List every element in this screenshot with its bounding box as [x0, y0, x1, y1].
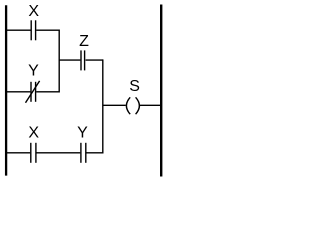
svg-text:S: S — [129, 78, 140, 95]
contact X1 (normally open) — [31, 20, 35, 40]
svg-text:Y: Y — [28, 63, 39, 80]
left power rail — [5, 5, 7, 175]
wire: bottom rung, left rail to contact X2 — [6, 152, 30, 154]
wire: top rung, left rail to contact X1 — [6, 29, 31, 31]
svg-text:X: X — [28, 125, 39, 142]
contact Z (normally open) — [81, 50, 85, 70]
wire: coil S to right rail — [140, 104, 161, 106]
svg-text:Z: Z — [79, 33, 89, 50]
contact X2 (normally open) — [31, 143, 36, 163]
contact Y2 (normally open) — [81, 143, 86, 163]
wire: contact Z to junction vertical — [86, 59, 103, 61]
svg-text:X: X — [28, 3, 39, 20]
wire: bottom rung, contact X2 to contact Y2 — [37, 152, 81, 154]
wire: branch lower path, left rail to contact Y1 — [6, 91, 30, 93]
wire: top rung, contact X1 to branch vertical — [36, 29, 59, 31]
svg-text:Y: Y — [77, 125, 88, 142]
wire: branch right vertical — [58, 30, 60, 93]
wire: branch lower path, contact Y1 to branch vertical — [36, 91, 59, 93]
contact Y1 (normally closed) — [26, 81, 40, 103]
coil S ( ) — [126, 97, 139, 114]
wire: junction vertical (node joining Z branch and bottom rung) — [102, 59, 104, 153]
wire: junction vertical to coil S — [103, 104, 126, 106]
wire: branch vertical to contact Z — [59, 59, 80, 61]
wire: bottom rung, contact Y2 to junction vertical — [86, 152, 102, 154]
right power rail — [160, 5, 162, 177]
